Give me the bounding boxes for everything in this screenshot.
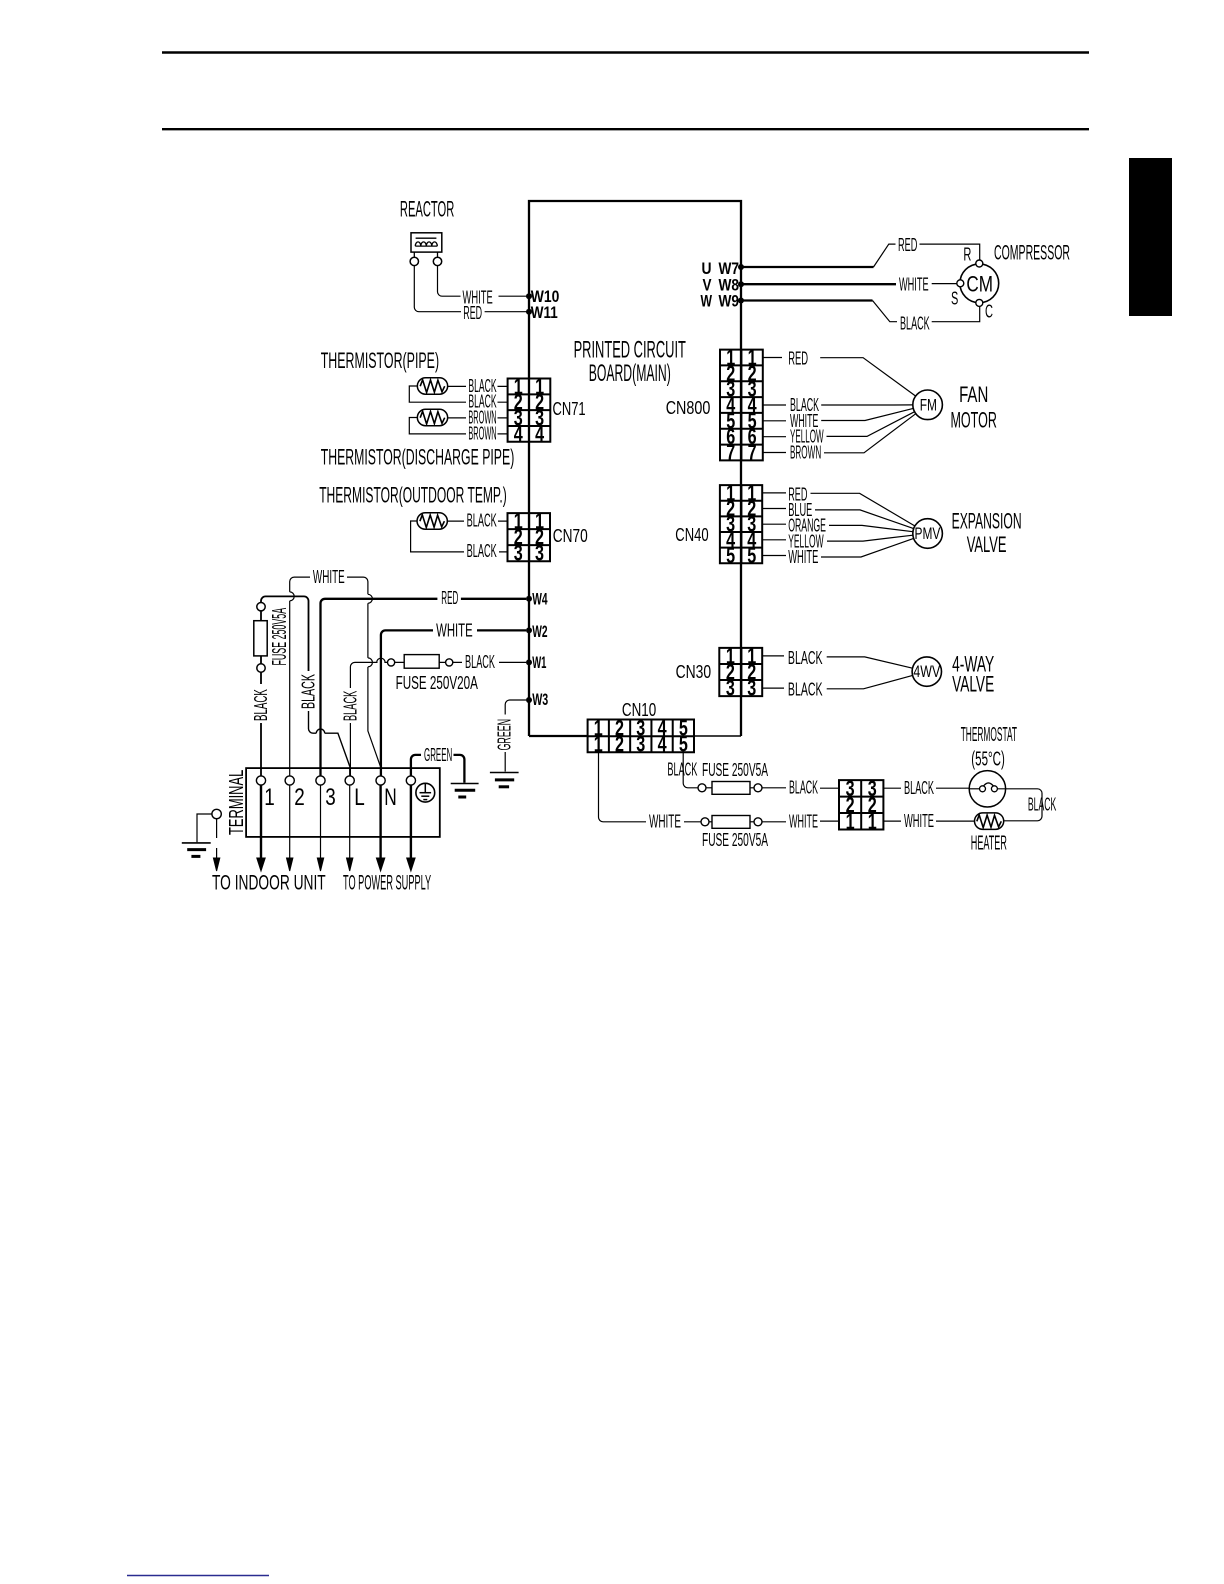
wire WHITE CN40-5 to expansion valve <box>762 538 913 557</box>
svg-text:W1: W1 <box>532 653 546 672</box>
svg-text:TO INDOOR UNIT: TO INDOOR UNIT <box>212 872 326 895</box>
connector CN70 <box>508 513 551 561</box>
svg-text:FM: FM <box>920 396 937 415</box>
wire BLACK RT1 to CN71-1 <box>448 385 508 387</box>
svg-text:THERMOSTAT: THERMOSTAT <box>961 724 1017 746</box>
heater <box>975 813 1004 830</box>
svg-text:PMV: PMV <box>915 524 941 543</box>
svg-text:RED: RED <box>898 235 917 255</box>
wire W W9 BLACK to compressor <box>742 299 873 301</box>
svg-text:VALVE: VALVE <box>967 532 1007 557</box>
wire BLACK F1 to terminal 1 <box>260 672 262 684</box>
wire BROWN RT2 to CN71-3 <box>448 417 508 419</box>
wire WHITE CN800-5 to fan motor <box>763 408 913 420</box>
svg-text:FAN: FAN <box>959 382 988 407</box>
wire BROWN RT2 to CN71-4 <box>409 418 507 434</box>
wire WHITE F3 to connector <box>762 820 839 823</box>
ground left with terminal <box>212 809 221 818</box>
wire BLACK RT3 to CN70-3 <box>411 521 508 552</box>
svg-text:FUSE 250V5A: FUSE 250V5A <box>702 830 768 850</box>
wire YELLOW CN800-6 to fan motor <box>763 412 915 437</box>
svg-text:W: W <box>701 292 713 311</box>
wire BLACK RT1 to CN71-2 <box>409 386 507 402</box>
svg-text:4WV: 4WV <box>913 662 940 681</box>
svg-text:3: 3 <box>325 784 336 811</box>
svg-text:5: 5 <box>726 543 735 568</box>
header rule top <box>162 51 1089 54</box>
wire BLACK fuse F1 branch to terminal L <box>261 596 309 671</box>
fuse F2 250V5A <box>698 784 706 792</box>
fan motor FM <box>913 390 943 420</box>
svg-text:WHITE: WHITE <box>899 275 929 295</box>
svg-text:TO POWER SUPPLY: TO POWER SUPPLY <box>343 872 431 895</box>
svg-text:FUSE 250V20A: FUSE 250V20A <box>396 673 478 693</box>
wire BLACK thermostat to heater <box>997 789 1042 821</box>
svg-text:CN70: CN70 <box>553 526 588 546</box>
svg-text:BOARD(MAIN): BOARD(MAIN) <box>589 360 671 387</box>
svg-text:BLACK: BLACK <box>341 691 361 721</box>
wire BLACK connector to thermostat <box>883 787 969 789</box>
svg-text:CN71: CN71 <box>553 399 586 419</box>
wire BLACK F2 to connector <box>762 787 839 789</box>
ground for GREEN wire <box>451 783 479 785</box>
PCB main board outline <box>529 201 741 736</box>
svg-text:VALVE: VALVE <box>952 672 994 697</box>
svg-text:CN800: CN800 <box>666 398 711 418</box>
svg-text:WHITE: WHITE <box>436 621 473 641</box>
svg-text:TERMINAL: TERMINAL <box>226 770 248 835</box>
svg-text:W9: W9 <box>719 292 740 311</box>
wire WHITE reactor to W10 <box>438 266 527 297</box>
earth terminal symbol <box>416 783 435 802</box>
connector CN10 <box>588 720 694 753</box>
svg-text:BROWN: BROWN <box>468 423 496 443</box>
svg-text:EXPANSION: EXPANSION <box>952 509 1022 534</box>
wire BLACK CN30-1 to 4-way valve <box>762 656 912 668</box>
wire BLACK CN30-3 to 4-way valve <box>762 675 912 688</box>
svg-text:W3: W3 <box>532 690 548 709</box>
svg-text:CN30: CN30 <box>676 662 712 682</box>
arrows to indoor unit <box>260 785 262 859</box>
wire GREEN W3 to ground <box>505 700 526 772</box>
reactor L1 <box>411 233 442 252</box>
wire BLUE CN40-2 to expansion valve <box>762 509 913 529</box>
wire ORANGE CN40-3 to expansion valve <box>762 524 913 532</box>
wire V W8 WHITE to compressor <box>742 283 896 285</box>
header rule bottom <box>162 128 1089 130</box>
svg-text:L: L <box>354 784 365 811</box>
svg-text:CN10: CN10 <box>622 700 656 720</box>
svg-text:3: 3 <box>726 676 735 701</box>
svg-text:BLACK: BLACK <box>667 760 697 780</box>
svg-text:RED: RED <box>463 303 482 323</box>
ground for W3 wire <box>490 772 519 774</box>
connector CN800 <box>720 350 763 461</box>
svg-text:BLACK: BLACK <box>789 778 818 798</box>
svg-text:4: 4 <box>658 731 668 756</box>
svg-text:BLACK: BLACK <box>900 314 930 334</box>
fuse F1 250V5A <box>257 603 265 611</box>
expansion valve PMV <box>913 519 943 549</box>
svg-text:W4: W4 <box>532 590 548 609</box>
4-way valve 4WV <box>912 657 941 686</box>
svg-text:CM: CM <box>966 272 993 297</box>
svg-text:W2: W2 <box>532 622 547 641</box>
wire WHITE jumper terminal 2 to N <box>290 577 310 592</box>
svg-text:WHITE: WHITE <box>649 812 681 832</box>
thermistor RT1 (pipe) <box>417 378 447 395</box>
wire U W7 RED to compressor <box>742 266 874 268</box>
thermistor RT2 (discharge pipe) <box>417 409 447 426</box>
wire RED CN40-1 to expansion valve <box>762 493 915 526</box>
svg-text:BLACK: BLACK <box>467 541 497 561</box>
page edge tab <box>1129 158 1172 316</box>
svg-text:WHITE: WHITE <box>904 811 934 831</box>
connector CN40 <box>720 485 762 563</box>
wire GREEN earth terminal to ground <box>411 755 465 783</box>
wire BLACK CN10-5 to fuse F2 <box>683 752 698 788</box>
svg-text:RED: RED <box>788 349 808 369</box>
node W4 <box>526 596 532 602</box>
wire YELLOW CN40-4 to expansion valve <box>762 535 913 541</box>
svg-text:BLACK: BLACK <box>465 652 495 672</box>
svg-text:W11: W11 <box>531 303 558 322</box>
svg-text:N: N <box>384 784 397 811</box>
svg-text:CN40: CN40 <box>675 525 708 545</box>
svg-text:BLACK: BLACK <box>251 689 271 721</box>
svg-text:REACTOR: REACTOR <box>400 196 454 221</box>
node W1 <box>526 659 532 665</box>
svg-text:3: 3 <box>535 541 544 566</box>
wire WHITE connector to heater <box>883 820 974 822</box>
svg-text:WHITE: WHITE <box>789 812 818 832</box>
svg-text:WHITE: WHITE <box>788 547 818 567</box>
svg-text:C: C <box>985 302 993 322</box>
arrows to power supply <box>349 785 351 859</box>
node W10 <box>526 293 532 299</box>
node W3 <box>526 697 532 703</box>
svg-text:(55°C): (55°C) <box>971 749 1005 771</box>
footer line <box>127 1575 269 1577</box>
svg-text:FUSE 250V5A: FUSE 250V5A <box>702 760 768 780</box>
svg-text:BLACK: BLACK <box>904 778 934 798</box>
svg-text:1: 1 <box>846 809 855 834</box>
svg-text:4: 4 <box>535 421 545 446</box>
node W11 <box>526 309 532 315</box>
terminal block <box>246 768 440 837</box>
svg-text:S: S <box>951 289 958 309</box>
svg-text:4: 4 <box>514 421 524 446</box>
svg-text:2: 2 <box>615 731 624 756</box>
node W2 <box>526 627 532 633</box>
svg-text:2: 2 <box>294 784 305 811</box>
svg-text:3: 3 <box>747 676 756 701</box>
svg-text:BROWN: BROWN <box>790 443 821 463</box>
svg-text:1: 1 <box>264 784 275 811</box>
svg-text:BLACK: BLACK <box>299 674 319 709</box>
svg-text:HEATER: HEATER <box>971 833 1007 855</box>
connector CN30 <box>719 648 762 696</box>
svg-text:GREEN: GREEN <box>424 745 452 765</box>
svg-text:BLACK: BLACK <box>788 680 823 700</box>
wire RED reactor to W11 <box>414 266 526 312</box>
thermostat 55C <box>969 771 1005 807</box>
connector heater/thermostat 3x2 <box>839 780 883 829</box>
wire RED CN800-1 to fan motor <box>763 358 916 397</box>
svg-text:THERMISTOR(PIPE): THERMISTOR(PIPE) <box>321 348 439 373</box>
svg-text:COMPRESSOR: COMPRESSOR <box>994 241 1070 264</box>
svg-text:MOTOR: MOTOR <box>951 408 997 433</box>
wire BLACK CN800-4 to fan motor <box>763 404 913 406</box>
svg-text:RED: RED <box>441 588 458 608</box>
svg-text:BLACK: BLACK <box>788 648 823 668</box>
svg-text:1: 1 <box>868 809 877 834</box>
svg-text:7: 7 <box>726 440 735 465</box>
wire BLACK RT3 to CN70-1 <box>447 520 507 522</box>
svg-text:3: 3 <box>636 731 645 756</box>
svg-text:7: 7 <box>748 440 757 465</box>
thermistor RT3 (outdoor temp) <box>417 513 447 530</box>
svg-text:WHITE: WHITE <box>313 567 345 587</box>
compressor CM <box>960 264 999 303</box>
arrow left ground lead <box>216 848 218 859</box>
svg-text:FUSE 250V5A: FUSE 250V5A <box>269 608 291 666</box>
svg-text:3: 3 <box>514 541 523 566</box>
wire WHITE CN10-1 to fuse F3 <box>599 752 702 822</box>
svg-text:BLACK: BLACK <box>467 511 497 531</box>
svg-text:R: R <box>963 245 971 265</box>
wire WHITE W2 to terminal N <box>381 630 526 775</box>
svg-text:GREEN: GREEN <box>494 719 514 751</box>
wire BROWN CN800-7 to fan motor <box>763 414 916 453</box>
svg-text:THERMISTOR(DISCHARGE PIPE): THERMISTOR(DISCHARGE PIPE) <box>321 445 515 470</box>
svg-text:THERMISTOR(OUTDOOR TEMP.): THERMISTOR(OUTDOOR TEMP.) <box>319 483 507 508</box>
connector CN71 <box>508 379 551 442</box>
wire BLACK W1 through fuse F4 <box>350 662 377 688</box>
wire RED W4 to terminal 3 <box>321 599 527 776</box>
svg-text:5: 5 <box>747 543 756 568</box>
fuse F4 250V20A <box>388 659 395 666</box>
svg-text:BLACK: BLACK <box>1028 795 1056 815</box>
fuse F3 250V5A <box>701 818 709 826</box>
